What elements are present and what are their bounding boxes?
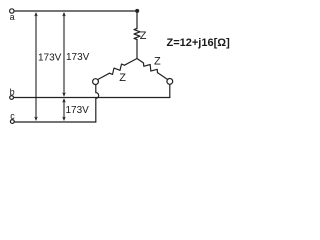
svg-text:173V: 173V (66, 105, 90, 116)
svg-text:a: a (10, 12, 15, 22)
svg-text:Z: Z (140, 30, 147, 42)
svg-text:Z: Z (154, 56, 161, 68)
svg-text:Z: Z (119, 72, 126, 84)
svg-text:b: b (10, 87, 15, 97)
svg-text:173V: 173V (66, 52, 90, 63)
svg-text:173V: 173V (38, 53, 62, 64)
svg-text:Z=12+j16[Ω]: Z=12+j16[Ω] (167, 37, 231, 49)
svg-text:c: c (10, 111, 15, 121)
